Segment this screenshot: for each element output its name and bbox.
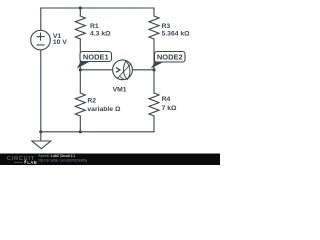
node flag NODE1 — [77, 52, 112, 69]
svg-text:VM1: VM1 — [113, 86, 127, 93]
wire bottom rail — [41, 131, 154, 133]
wire top rail — [41, 7, 154, 9]
svg-text:4.3 kΩ: 4.3 kΩ — [90, 31, 111, 38]
wire R3 bottom lead — [153, 39, 155, 70]
node junction dot NODE2 — [152, 68, 155, 71]
node junction dot NODE1 — [79, 68, 82, 71]
node flag NODE2 — [151, 52, 185, 69]
wire R4 bottom lead — [153, 116, 155, 132]
voltage source V1 — [31, 30, 51, 50]
resistor R1 — [75, 16, 85, 39]
svg-text:variable Ω: variable Ω — [87, 106, 121, 113]
wire left rail lower — [40, 50, 42, 132]
wire R1 bottom lead — [79, 39, 81, 70]
wire R2 bottom lead — [79, 116, 81, 132]
wire middle right segment — [132, 69, 154, 71]
node junction dot bottom R2 — [79, 130, 82, 133]
svg-text:R1: R1 — [90, 23, 99, 30]
watermark bar — [0, 154, 220, 166]
svg-text:LabZ Circuit 2.1: LabZ Circuit 2.1 — [51, 154, 75, 158]
svg-text:7 kΩ: 7 kΩ — [162, 105, 177, 112]
svg-text:NODE1: NODE1 — [83, 52, 109, 61]
wire left rail upper — [40, 8, 42, 30]
svg-text:LAB: LAB — [27, 160, 37, 165]
resistor R2 — [75, 93, 85, 116]
svg-text:10 V: 10 V — [53, 39, 67, 46]
wire R1 top lead — [79, 8, 81, 16]
wire middle left segment — [80, 69, 112, 71]
node junction dot ground — [39, 130, 42, 133]
svg-text:5.364 kΩ: 5.364 kΩ — [162, 31, 191, 38]
wire ground stub — [40, 132, 42, 141]
voltmeter VM1 — [113, 60, 133, 80]
svg-text:Rupmesh /: Rupmesh / — [38, 154, 51, 158]
svg-text:R3: R3 — [162, 23, 171, 30]
svg-text:NODE2: NODE2 — [157, 53, 183, 62]
resistor R4 — [149, 93, 159, 116]
node junction dot top R1 — [79, 6, 82, 9]
ground — [32, 141, 51, 149]
resistor R3 — [149, 16, 159, 39]
wire R3 top lead — [153, 8, 155, 16]
svg-text:http://circuitlab.com/c8697823: http://circuitlab.com/c8697823n8fby — [38, 159, 87, 163]
wire R4 top lead — [153, 70, 155, 93]
svg-text:R4: R4 — [162, 96, 171, 103]
svg-text:R2: R2 — [87, 97, 96, 104]
wire R2 top lead — [79, 70, 81, 93]
